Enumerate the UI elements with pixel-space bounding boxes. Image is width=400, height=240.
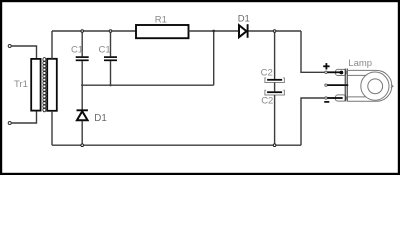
diode D1 (bottom, cathode up): [77, 110, 88, 120]
svg-text:R1: R1: [155, 15, 167, 26]
lamp trigger lead: [327, 84, 348, 86]
wire (secondary top up to top rail): [51, 31, 53, 59]
wire (secondary bottom down to bottom rail): [51, 111, 53, 145]
svg-text:D1: D1: [238, 14, 250, 25]
junction (top rail / mid wire riser): [212, 30, 215, 33]
lamp seal tip: [391, 85, 393, 88]
wire (D1 bottom-diode to bottom rail): [81, 121, 83, 145]
node lamp - terminal: [325, 97, 327, 99]
resistor R1: [136, 25, 189, 38]
svg-text:C1: C1: [71, 45, 83, 56]
transformer Tr1 core: [43, 58, 46, 112]
label - (lamp cathode polarity): [324, 101, 329, 103]
wire (down to lamp + lead): [301, 31, 325, 72]
svg-text:Tr1: Tr1: [14, 79, 28, 90]
junction (top rail / C1a): [81, 30, 84, 33]
lamp top lead housing: [335, 69, 346, 75]
lamp - lead: [327, 97, 342, 99]
junction (top rail / C2 branch): [273, 30, 276, 33]
lamp coil inner circle: [368, 79, 383, 94]
wire (mid horizontal wire): [82, 84, 214, 86]
wire (top rail between R1 and D1): [189, 30, 239, 32]
wire (bottom rail): [52, 144, 301, 146]
node lamp + terminal: [325, 71, 327, 73]
lamp bottom lead housing: [335, 95, 346, 101]
svg-text:D1: D1: [94, 113, 107, 124]
lamp + lead: [327, 71, 342, 73]
lamp inner tube wall (top): [347, 74, 366, 76]
lamp coil outer circle: [361, 72, 389, 100]
node IN- (left input terminal, bottom): [8, 122, 11, 125]
wire (C1a top branch): [81, 31, 83, 56]
transformer Tr1 secondary winding: [47, 59, 57, 111]
capacitor C2 (upper, polarized): [265, 78, 285, 83]
wire (C1b top branch): [110, 31, 112, 56]
wire (D1 bottom-diode top branch): [81, 85, 83, 109]
junction (mid wire / C1b): [109, 84, 111, 86]
junction (mid wire / C1a-D1): [81, 84, 83, 86]
junction (bottom rail / C2 branch): [273, 144, 276, 147]
svg-text:C2: C2: [261, 95, 273, 106]
wire (C1a bottom branch to mid wire): [81, 61, 83, 85]
capacitor C1 (second): [104, 57, 117, 60]
lamp inner tube wall (bottom): [347, 96, 366, 98]
diode D1 (top, cathode right): [239, 24, 248, 38]
wire (C2 bottom branch to rail): [274, 95, 276, 145]
junction (bottom rail / D1): [81, 144, 84, 147]
svg-text:C1: C1: [99, 45, 111, 56]
wire (mid wire up to top rail): [213, 31, 215, 85]
capacitor C1 (first): [76, 57, 89, 60]
wire (C2 top branch): [274, 31, 276, 79]
label + (lamp anode polarity): [323, 63, 329, 69]
lamp base double lines: [345, 69, 347, 102]
capacitor C2 (lower, polarized): [265, 90, 285, 95]
node lamp trigger terminal: [325, 84, 327, 86]
transformer Tr1 primary winding: [31, 59, 40, 111]
wire: [11, 46, 36, 59]
wire (top rail left segment): [52, 30, 136, 32]
wire (top rail after D1): [249, 30, 302, 32]
svg-text:Lamp: Lamp: [348, 58, 372, 69]
node IN+ (left input terminal, top): [8, 45, 11, 48]
wire: [11, 111, 36, 123]
wire (between C2 caps): [274, 83, 276, 92]
lamp + lead contact dot: [340, 71, 344, 75]
wire (C1b bottom branch to mid wire): [110, 61, 112, 85]
junction (top rail / C1b): [109, 30, 112, 33]
lamp body outline: [347, 70, 392, 101]
svg-text:C2: C2: [261, 67, 273, 78]
wire (bottom rail up to lamp - lead): [301, 98, 325, 145]
